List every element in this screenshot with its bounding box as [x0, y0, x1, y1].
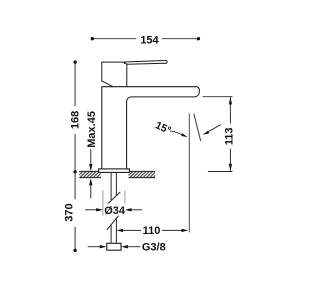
label Max.45: [86, 111, 98, 148]
dimension 168 line: [73, 60, 76, 173]
svg-text:110: 110: [143, 225, 161, 237]
base plate: [99, 169, 130, 173]
label 113: [224, 128, 236, 146]
svg-text:Max.45: Max.45: [86, 111, 98, 148]
supply rod upper segment: [111, 173, 116, 201]
stream slanted line: [194, 114, 201, 141]
G3/8 leader arrows: [88, 245, 141, 248]
dimension 154 line: [91, 37, 200, 40]
break diagonal D1: [107, 192, 120, 204]
counter hatch right: [129, 171, 156, 177]
counter thickness up arrow: [89, 178, 92, 198]
leader to slanted line: [203, 125, 221, 135]
stream vertical reference line: [188, 113, 190, 232]
G3/8 connector box: [107, 243, 121, 250]
label 370: [63, 203, 75, 221]
label 154: [140, 34, 159, 46]
handle block: [102, 62, 127, 87]
Max.45 down arrow: [89, 149, 92, 171]
dimension 113: [203, 97, 233, 172]
svg-text:370: 370: [63, 203, 75, 221]
dia extension lines: [103, 190, 125, 215]
dimension 110: [116, 229, 188, 232]
counter hatch left: [79, 171, 100, 177]
label 110: [141, 225, 162, 237]
dimension 370 line: [73, 172, 76, 252]
handle lever blade: [124, 60, 167, 64]
svg-text:Ø34: Ø34: [104, 205, 126, 217]
svg-text:113: 113: [224, 128, 236, 146]
supply rod lower segment: [111, 218, 116, 243]
faucet body and spout outline: [102, 87, 200, 169]
label dia34: [104, 204, 126, 217]
svg-text:154: 154: [140, 34, 159, 46]
label 168: [70, 111, 82, 129]
break diagonal D2: [107, 216, 119, 230]
label G3/8: [142, 242, 166, 254]
label 15deg: [153, 119, 172, 137]
dimension dia34: [85, 208, 142, 211]
svg-text:G3/8: G3/8: [142, 242, 166, 254]
leader from 15deg to vertical line: [170, 131, 188, 137]
svg-text:168: 168: [70, 111, 82, 129]
